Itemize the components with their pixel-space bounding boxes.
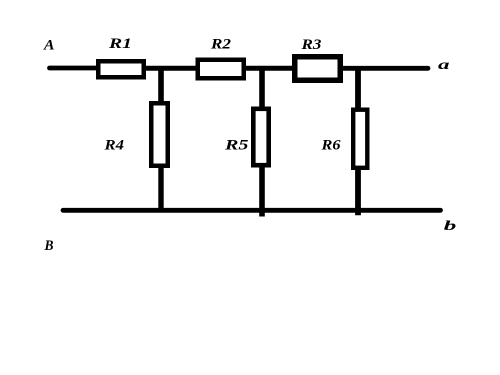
svg-text:A: A <box>43 38 55 54</box>
svg-text:b: b <box>444 219 457 234</box>
wire: top rail segment R1 to R2 <box>145 66 197 71</box>
wire: vertical from R5 down to bottom rail, junction dot overshoot <box>259 166 265 217</box>
wire: vertical from top rail down to R6 <box>355 66 361 110</box>
wire: vertical from R6 down to bottom rail, junction dot overshoot <box>355 167 361 215</box>
svg-text:B: B <box>44 238 54 254</box>
svg-text:a: a <box>438 58 450 73</box>
svg-text:R4: R4 <box>103 138 124 154</box>
wire: vertical from R4 down to bottom rail <box>158 166 163 211</box>
svg-text:R6: R6 <box>320 138 341 154</box>
resistor R5 <box>253 109 268 165</box>
svg-text:R3: R3 <box>300 37 322 53</box>
wire: vertical from top rail down to R4 <box>158 66 164 103</box>
svg-text:R5: R5 <box>224 138 249 154</box>
resistor R2 <box>198 60 244 79</box>
wire: top rail segment R2 to R3 <box>245 66 294 71</box>
svg-text:R1: R1 <box>108 36 132 52</box>
resistor R3 <box>295 57 341 81</box>
wire: top rail segment R3 to node a <box>342 66 428 71</box>
resistor R4 <box>151 103 168 166</box>
resistor R1 <box>98 61 144 77</box>
resistor R6 <box>353 110 367 168</box>
wire: bottom rail B to b <box>63 208 441 213</box>
wire: top rail segment A to R1 <box>50 66 97 71</box>
wire: vertical from top rail down to R5 <box>259 66 265 109</box>
svg-text:R2: R2 <box>210 36 232 52</box>
